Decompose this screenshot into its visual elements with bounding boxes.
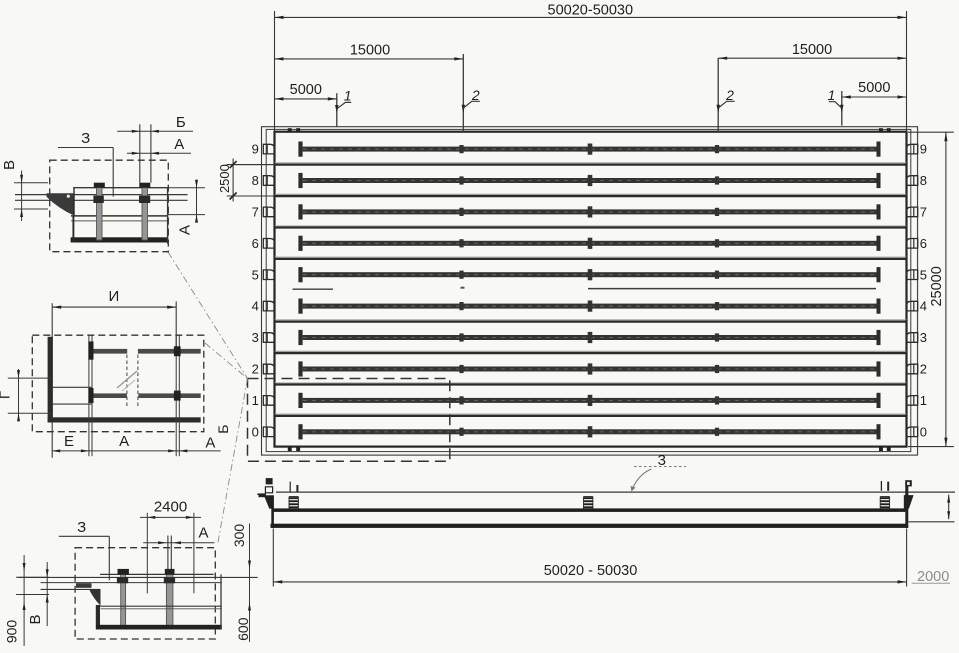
dimension 25000 right (908, 132, 954, 446)
detail И break zigzag (117, 371, 137, 391)
detail И break lines (127, 355, 138, 409)
svg-text:5000: 5000 (290, 82, 322, 98)
detail BL channel (96, 574, 222, 629)
label Б rotated detail И (215, 425, 231, 434)
rail bar row 4 (298, 299, 880, 314)
svg-text:600: 600 (235, 617, 251, 641)
rail bar row 9 (298, 142, 880, 157)
rail bar row 2 (298, 361, 880, 376)
row separator joint line 5 (293, 288, 877, 290)
svg-text:6: 6 (252, 236, 259, 251)
dimension 15000 right (718, 42, 906, 60)
detail TL left wedge (47, 193, 75, 215)
clip left row 3 (263, 333, 274, 343)
svg-text:2000: 2000 (917, 569, 949, 585)
row number 5 right (920, 267, 927, 282)
svg-text:2400: 2400 (154, 499, 187, 516)
svg-text:2: 2 (471, 87, 480, 103)
svg-text:Б: Б (176, 114, 186, 131)
detail TL rail lines (15, 195, 188, 201)
extension line left x=274.5 (274, 11, 276, 132)
row number 1 right (920, 393, 927, 408)
elevation right end wedge (904, 495, 914, 509)
svg-text:4: 4 (920, 299, 927, 314)
detail И bottom dimension line (52, 449, 221, 452)
detail TL top plate (73, 187, 168, 189)
svg-text:0: 0 (920, 424, 927, 439)
label З detail TL (58, 130, 113, 197)
detail TL right edge (167, 188, 169, 244)
svg-text:В: В (27, 614, 44, 624)
row separator joint line 9 (275, 414, 907, 416)
svg-text:2: 2 (920, 362, 927, 377)
svg-text:А: А (119, 433, 129, 450)
clip left row 4 (263, 301, 274, 311)
svg-text:1: 1 (828, 87, 836, 103)
row number 4 right (920, 299, 927, 314)
elevation right extension line lower (909, 521, 955, 523)
clip right row 3 (907, 333, 918, 343)
svg-text:15000: 15000 (792, 42, 832, 58)
label А right detail И (205, 435, 215, 452)
clip right row 2 (907, 364, 918, 374)
svg-text:5: 5 (252, 267, 259, 282)
dimension Б detail TL (117, 114, 193, 133)
row number 0 left (252, 424, 259, 439)
svg-text:1: 1 (920, 393, 927, 408)
svg-text:50020 - 50030: 50020 - 50030 (544, 563, 638, 579)
clip right row 1 (907, 396, 918, 406)
svg-text:4: 4 (252, 299, 259, 314)
dimension 5000 right (842, 80, 907, 99)
clip right row 4 (907, 301, 918, 311)
svg-text:5: 5 (920, 267, 927, 282)
svg-text:А: А (177, 225, 194, 235)
dimension И (52, 288, 176, 458)
plan outer contour B (266, 129, 911, 451)
label 3 elevation callout (631, 452, 687, 492)
elevation top chord band (272, 508, 906, 512)
row separator joint line 1 (227, 163, 907, 165)
detail TL bottom bar (71, 237, 169, 242)
row number 8 right (920, 173, 927, 188)
svg-text:И: И (109, 288, 120, 305)
row number 9 right (920, 142, 927, 157)
row number 3 right (920, 330, 927, 345)
row number 0 right (920, 424, 927, 439)
detail TL mid lines (71, 216, 168, 221)
svg-text:В: В (1, 160, 18, 170)
row number 2 left (252, 362, 259, 377)
clip right row 9 (907, 144, 918, 154)
rail bar row 5 (298, 267, 880, 282)
svg-text:6: 6 (920, 236, 927, 251)
svg-text:А: А (205, 435, 215, 452)
detail TL anchor bolt 1 (93, 183, 104, 240)
elevation pins right (881, 481, 888, 491)
leader to detail bottom-left (218, 379, 248, 546)
detail И dashed box (32, 335, 204, 432)
detail TL anchor bolt 2 (139, 183, 150, 240)
detail И lower bar (88, 388, 200, 403)
rail bar row 6 (298, 236, 880, 251)
row number 7 right (920, 205, 927, 220)
rail bar row 8 (298, 173, 880, 188)
clip left row 8 (263, 176, 274, 186)
label З detail BL (59, 519, 110, 580)
detail И rail edge lines right pair (176, 335, 179, 456)
embedded plate block middle (584, 497, 593, 509)
elevation left lifting loop (265, 478, 272, 493)
label А detail BL (143, 525, 214, 545)
row number 9 left (252, 142, 259, 157)
rail bar row 3 (298, 330, 880, 345)
clip left row 2 (263, 364, 274, 374)
clip right row 8 (907, 176, 918, 186)
svg-text:7: 7 (920, 205, 927, 220)
svg-text:Е: Е (64, 433, 74, 450)
leader to detail top-left (168, 252, 248, 379)
label Е detail И (64, 433, 74, 450)
detail BL anchor bolt 1 (117, 569, 129, 627)
svg-text:7: 7 (252, 205, 259, 220)
svg-text:50020-50030: 50020-50030 (548, 3, 633, 19)
plan outer contour A (262, 127, 918, 455)
svg-text:5000: 5000 (858, 80, 890, 96)
detail BL anchor wires (168, 536, 171, 570)
extension line right x=906.5 (906, 11, 908, 132)
elevation right edge (905, 494, 908, 528)
svg-text:15000: 15000 (350, 43, 390, 59)
detail И channel lines (53, 387, 92, 404)
svg-text:3: 3 (920, 330, 927, 345)
row number 1 left (252, 393, 259, 408)
row number 5 left (252, 267, 259, 282)
detail TL left edge (72, 188, 75, 242)
detail И corner angle (48, 337, 201, 423)
svg-text:Г: Г (0, 391, 14, 399)
svg-text:9: 9 (920, 142, 927, 157)
svg-text:900: 900 (4, 620, 20, 644)
leader to detail И (205, 343, 248, 379)
detail BL braid strip (76, 583, 92, 588)
row separator joint line 4 (275, 257, 907, 259)
row number 2 right (920, 362, 927, 377)
svg-text:0: 0 (252, 424, 259, 439)
detail BL left wedge (89, 589, 101, 606)
svg-text:А: А (174, 136, 184, 153)
clip right row 7 (907, 207, 918, 217)
elevation left end wedge (259, 493, 274, 508)
dimension 15000 left (275, 43, 464, 61)
svg-text:8: 8 (252, 173, 259, 188)
svg-text:9: 9 (252, 142, 259, 157)
clip left row 6 (263, 239, 274, 249)
callout dashed box on plan (248, 379, 450, 462)
row separator joint line 7 (275, 351, 907, 353)
dimension 50020-50030 top (275, 3, 907, 20)
svg-text:8: 8 (920, 173, 927, 188)
row number 8 left (252, 173, 259, 188)
dimension 5000 left (275, 82, 337, 101)
section mark 2 right (717, 58, 735, 132)
clip left row 7 (263, 207, 274, 217)
svg-text:1: 1 (252, 393, 259, 408)
svg-text:1: 1 (344, 88, 352, 104)
section mark 2 left (462, 54, 480, 132)
detail BL anchor bolt 2 (164, 569, 175, 627)
elevation top line (257, 492, 955, 494)
clip right row 6 (907, 239, 918, 249)
dimension А detail TL (127, 136, 191, 155)
section mark 1 right (828, 87, 844, 125)
svg-text:300: 300 (231, 524, 247, 548)
dimension 300 600 detail BL right (231, 524, 251, 642)
lifting tabs plan top left (288, 128, 300, 132)
dimension В detail BL (16, 562, 49, 626)
detail TL anchor wires (140, 124, 151, 182)
dimension 2500 row pitch (217, 159, 275, 202)
clip right row 0 (907, 427, 918, 437)
elevation left edge (271, 507, 274, 528)
plan right outer thin line (917, 127, 919, 455)
row number 6 left (252, 236, 259, 251)
clip left row 9 (263, 144, 274, 154)
row separator joint line 6 (275, 320, 907, 322)
detail И rail edge lines left pair (89, 335, 92, 456)
dimension Г detail И (0, 369, 52, 422)
detail BL dashed box (75, 548, 215, 639)
elevation right lifting loop (905, 480, 912, 495)
row number 6 right (920, 236, 927, 251)
embedded plate block right (880, 497, 889, 509)
rail bar row 1 (298, 393, 880, 408)
dimension 50020-50030 bottom (273, 529, 906, 587)
detail BL rail lines (18, 577, 258, 589)
clip left row 0 (263, 427, 274, 437)
lifting tabs plan bottom left (288, 447, 300, 451)
row number 3 left (252, 330, 259, 345)
row separator joint line 8 (275, 383, 907, 385)
row separator joint line 2 (227, 194, 907, 196)
svg-text:2: 2 (725, 87, 734, 103)
dimension 2400 detail BL (140, 499, 201, 594)
section mark 1 left (335, 88, 351, 127)
detail TL dashed box (50, 160, 169, 252)
svg-text:3: 3 (252, 330, 259, 345)
svg-text:З: З (77, 519, 86, 536)
row separator joint line 3 (275, 226, 907, 228)
svg-text:2: 2 (252, 362, 259, 377)
lifting tabs plan top right (879, 128, 891, 132)
clip left row 1 (263, 396, 274, 406)
svg-text:А: А (198, 525, 208, 542)
label 2000 (912, 569, 951, 585)
lifting tabs plan bottom right (879, 447, 891, 451)
svg-text:З: З (81, 130, 90, 147)
dimension А rotated detail TL right (168, 180, 205, 235)
rail bar row 0 (298, 424, 880, 439)
clip right row 5 (907, 270, 918, 280)
svg-text:2500: 2500 (217, 164, 232, 193)
dimension В detail TL (1, 160, 48, 221)
detail BL top plate (100, 573, 214, 575)
detail И top bar (88, 341, 200, 359)
rail bar row 7 (298, 204, 880, 219)
dimension 900 detail BL (4, 555, 26, 646)
svg-text:25000: 25000 (929, 266, 945, 306)
plan slab main edge (275, 132, 907, 447)
row number 7 left (252, 205, 259, 220)
small height dimension right (947, 495, 950, 520)
embedded plate block left (289, 497, 298, 509)
clip left row 5 (263, 270, 274, 280)
row number 4 left (252, 299, 259, 314)
elevation pins left (290, 482, 297, 493)
elevation bottom chord band (271, 524, 907, 528)
svg-text:Б: Б (215, 425, 231, 434)
label А detail И (119, 433, 129, 450)
